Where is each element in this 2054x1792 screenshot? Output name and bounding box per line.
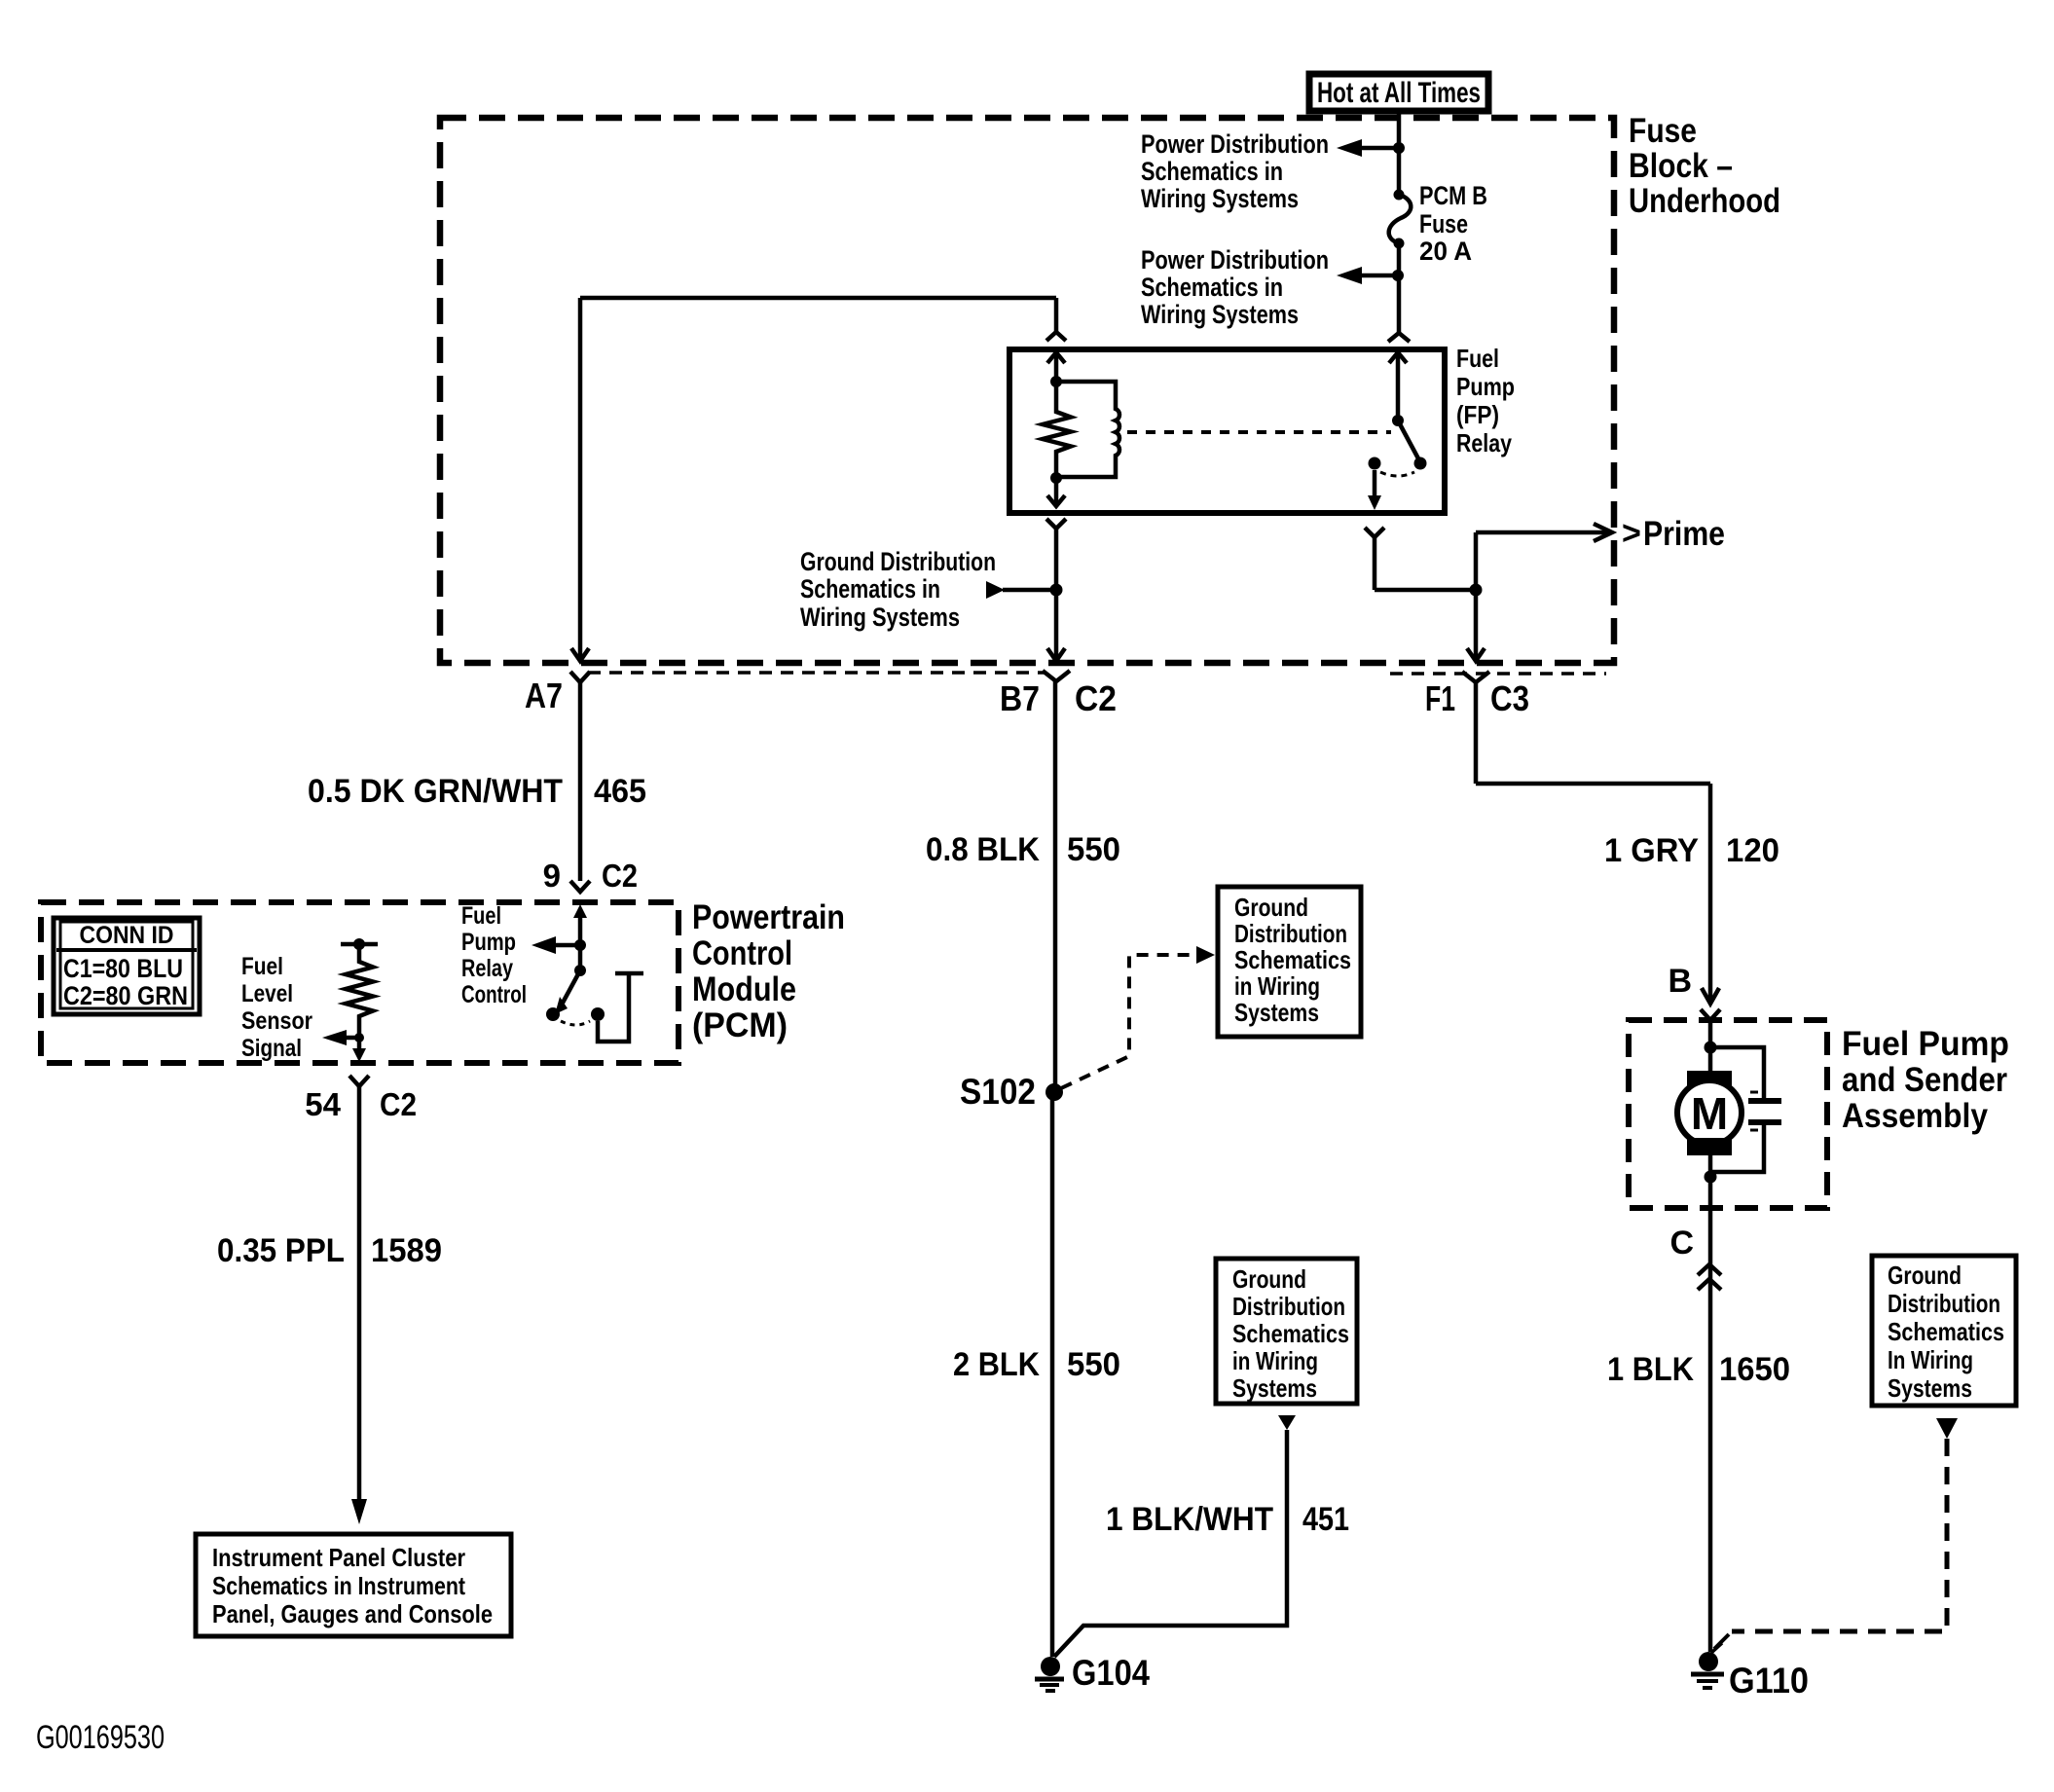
svg-text:(FP): (FP)	[1456, 400, 1499, 429]
svg-text:Wiring Systems: Wiring Systems	[800, 603, 960, 632]
relay box (Fuel Pump FP Relay)	[1009, 349, 1445, 513]
svg-text:F1: F1	[1425, 678, 1455, 718]
wire: 1 BLK/WHT 451	[1054, 1430, 1287, 1657]
wire to power distribution (lower)	[1361, 274, 1398, 278]
svg-text:Wiring Systems: Wiring Systems	[1141, 184, 1299, 213]
svg-text:Schematics in: Schematics in	[800, 574, 940, 603]
svg-text:Fuse: Fuse	[1629, 112, 1697, 150]
fuel pump and sender assembly dashed box	[1629, 1020, 1827, 1208]
svg-text:Distribution: Distribution	[1234, 919, 1347, 948]
instrument panel cluster reference box	[196, 1534, 511, 1636]
svg-text:1 BLK: 1 BLK	[1607, 1351, 1694, 1388]
powertrain control module dashed box	[41, 902, 679, 1063]
junction node at motor top	[1705, 1042, 1717, 1054]
inductor (relay coil)	[1056, 382, 1119, 477]
svg-text:C2: C2	[602, 858, 638, 894]
svg-text:B: B	[1668, 963, 1692, 1000]
svg-text:Prime: Prime	[1643, 515, 1725, 553]
wire: battery feed from Hot at All Times	[1397, 111, 1402, 194]
svg-text:1 BLK/WHT: 1 BLK/WHT	[1106, 1501, 1273, 1538]
svg-text:C2=80 GRN: C2=80 GRN	[63, 981, 188, 1010]
svg-text:Distribution: Distribution	[1888, 1289, 2000, 1318]
svg-text:Pump: Pump	[1456, 372, 1515, 401]
svg-text:Control: Control	[461, 981, 527, 1008]
connector B7 exit at fuse block edge	[1043, 648, 1070, 681]
svg-text:G110: G110	[1729, 1661, 1809, 1701]
dashed mechanical linkage	[1127, 430, 1391, 434]
svg-text:Signal: Signal	[241, 1035, 302, 1062]
capacitor (noise suppressor)	[1710, 1047, 1781, 1172]
svg-text:G00169530: G00169530	[36, 1719, 165, 1756]
svg-text:Control: Control	[692, 934, 792, 972]
svg-text:in Wiring: in Wiring	[1232, 1346, 1318, 1375]
wire from ground distribution arrow	[1003, 588, 1056, 593]
connector C chevrons	[1698, 1264, 1721, 1290]
wire: coil low side to B7	[1054, 529, 1059, 660]
svg-text:Power Distribution: Power Distribution	[1141, 129, 1329, 159]
arrowhead into instrument panel cluster box	[351, 1499, 367, 1524]
svg-text:and Sender: and Sender	[1842, 1061, 2007, 1099]
svg-text:1650: 1650	[1719, 1351, 1790, 1388]
svg-text:Wiring Systems: Wiring Systems	[1141, 300, 1299, 329]
svg-text:Fuel Pump: Fuel Pump	[1842, 1025, 2009, 1063]
svg-text:Underhood: Underhood	[1629, 182, 1780, 220]
wire: fuse to relay switch pin	[1397, 243, 1402, 332]
svg-text:Assembly: Assembly	[1842, 1097, 1988, 1135]
svg-text:20 A: 20 A	[1419, 237, 1472, 266]
svg-text:G104: G104	[1072, 1653, 1150, 1693]
svg-text:C1=80 BLU: C1=80 BLU	[63, 954, 183, 983]
svg-text:(PCM): (PCM)	[692, 1006, 788, 1044]
svg-text:550: 550	[1067, 831, 1120, 868]
svg-text:1 GRY: 1 GRY	[1604, 832, 1699, 869]
junction node at coil bottom	[1050, 472, 1062, 484]
svg-text:2 BLK: 2 BLK	[953, 1346, 1040, 1383]
fuel level sensor (variable resistor)	[341, 938, 378, 1038]
wire: 0.35 PPL 1589 to instrument panel	[357, 1086, 362, 1501]
svg-text:CONN ID: CONN ID	[80, 922, 174, 949]
svg-text:Relay: Relay	[1456, 428, 1512, 457]
wire: motor to connector C	[1708, 1177, 1713, 1652]
dashed reference line to G110	[1732, 1439, 1947, 1631]
svg-text:Schematics: Schematics	[1234, 945, 1351, 974]
svg-text:PCM B: PCM B	[1419, 181, 1487, 210]
connector B of fuel pump	[1701, 988, 1720, 1020]
svg-text:In Wiring: In Wiring	[1888, 1345, 1973, 1374]
svg-text:C3: C3	[1490, 678, 1529, 718]
svg-text:Relay: Relay	[461, 955, 513, 982]
motor M (fuel pump motor)	[1677, 1071, 1742, 1177]
splice S102	[1045, 1083, 1063, 1101]
svg-text:Level: Level	[241, 980, 293, 1007]
svg-text:Fuse: Fuse	[1419, 209, 1468, 238]
wire: 1 GRY 120 to fuel pump	[1476, 682, 1710, 1003]
wire: relay coil feed to PCM (465 net)	[580, 296, 1056, 301]
fuse PCM B 20 A	[1389, 190, 1412, 249]
connector pin 54 C2 below PCM	[349, 1076, 369, 1086]
svg-text:0.8 BLK: 0.8 BLK	[926, 831, 1040, 868]
svg-text:A7: A7	[525, 676, 563, 715]
svg-text:>: >	[1622, 515, 1641, 552]
svg-text:Block –: Block –	[1629, 147, 1733, 185]
svg-text:Systems: Systems	[1234, 998, 1319, 1027]
ground distribution box (middle lower)	[1216, 1259, 1357, 1404]
junction node on battery feed	[1393, 142, 1405, 154]
PCM pin 9 internal arrow (fuel pump relay control driver)	[532, 904, 587, 954]
svg-text:465: 465	[594, 773, 646, 810]
relay coil pin entry (top left)	[1046, 332, 1066, 387]
arrowhead pointing right into middle ground distribution box	[1196, 946, 1215, 964]
ground distribution box (middle upper)	[1218, 887, 1361, 1037]
connector chevron at relay switch pin	[1388, 333, 1410, 342]
PCM internal switch (relay control)	[546, 945, 643, 1042]
svg-text:Pump: Pump	[461, 929, 516, 956]
wire: 0.5 DK GRN/WHT 465	[578, 682, 583, 881]
svg-text:Hot at All Times: Hot at All Times	[1317, 77, 1481, 109]
svg-text:Fuel: Fuel	[1456, 344, 1499, 373]
arrowhead below right ground distribution box	[1936, 1418, 1958, 1439]
fuse block underhood dashed box	[440, 118, 1614, 663]
svg-text:0.35 PPL: 0.35 PPL	[217, 1232, 345, 1269]
svg-text:Schematics: Schematics	[1232, 1319, 1349, 1348]
svg-text:C2: C2	[1075, 678, 1117, 718]
svg-text:C2: C2	[380, 1086, 417, 1122]
svg-text:Ground Distribution: Ground Distribution	[800, 547, 996, 576]
svg-text:Panel, Gauges and Console: Panel, Gauges and Console	[212, 1599, 493, 1628]
dashed reference line from S102	[1061, 955, 1197, 1088]
svg-text:54: 54	[305, 1086, 341, 1122]
svg-text:Schematics in: Schematics in	[1141, 157, 1283, 186]
svg-text:Power Distribution: Power Distribution	[1141, 245, 1329, 274]
connector pin 9 C2 into PCM	[570, 881, 590, 892]
svg-text:Ground: Ground	[1234, 893, 1308, 922]
svg-text:Module: Module	[692, 970, 796, 1008]
svg-text:Sensor: Sensor	[241, 1007, 312, 1035]
CONN ID legend box	[54, 918, 200, 1014]
ground G104	[1035, 1657, 1064, 1691]
svg-text:550: 550	[1067, 1346, 1120, 1383]
junction node for ground distribution feed	[1050, 584, 1063, 597]
svg-text:Schematics in Instrument: Schematics in Instrument	[212, 1571, 465, 1600]
svg-text:Systems: Systems	[1232, 1373, 1317, 1403]
svg-text:Ground: Ground	[1232, 1264, 1306, 1294]
wire: 0.8 BLK 550	[1053, 681, 1058, 1092]
svg-text:Fuel: Fuel	[241, 953, 283, 980]
relay pole exit wire	[1365, 470, 1483, 597]
svg-text:M: M	[1691, 1088, 1728, 1139]
connector A7 exit at fuse block edge	[570, 648, 590, 682]
junction node at motor bottom	[1705, 1171, 1717, 1184]
svg-text:B7: B7	[1000, 678, 1040, 718]
wire: 2 BLK 550 to G104	[1050, 1092, 1055, 1657]
svg-text:120: 120	[1726, 832, 1779, 869]
wire: F1 output down through fuse block edge	[1462, 590, 1489, 682]
relay coil bottom exit pin	[1046, 478, 1066, 529]
svg-text:Systems: Systems	[1888, 1373, 1972, 1403]
svg-text:1589: 1589	[371, 1232, 442, 1269]
svg-text:Powertrain: Powertrain	[692, 898, 845, 936]
ground distribution box (right)	[1872, 1256, 2016, 1406]
wire: prime branch	[1476, 524, 1612, 590]
relay coil feed pin entry at relay top left	[1054, 298, 1059, 332]
wire to power distribution (upper)	[1361, 146, 1399, 151]
arrowhead pointing left (lower power distribution)	[1337, 267, 1362, 284]
svg-text:in Wiring: in Wiring	[1234, 971, 1320, 1001]
label: Hot at All Times	[1309, 74, 1488, 111]
svg-text:Instrument Panel Cluster: Instrument Panel Cluster	[212, 1543, 465, 1572]
arrowhead below middle ground distribution box	[1278, 1415, 1296, 1430]
svg-text:C: C	[1669, 1225, 1694, 1262]
svg-text:Fuel: Fuel	[461, 902, 501, 930]
resistor (relay coil shunt)	[1043, 382, 1071, 479]
svg-text:451: 451	[1302, 1501, 1349, 1538]
relay switch	[1369, 352, 1427, 476]
arrowhead pointing left (upper power distribution)	[1337, 139, 1362, 157]
svg-text:Distribution: Distribution	[1232, 1292, 1345, 1321]
junction node on fused feed	[1392, 270, 1404, 281]
fuel level sensor signal tap	[322, 1030, 366, 1062]
svg-text:9: 9	[543, 858, 561, 894]
svg-text:0.5 DK GRN/WHT: 0.5 DK GRN/WHT	[308, 773, 563, 810]
svg-text:Schematics: Schematics	[1888, 1317, 2004, 1346]
arrowhead pointing right (ground distribution feed)	[986, 581, 1005, 599]
svg-text:Schematics in: Schematics in	[1141, 273, 1283, 302]
thin dashed connector line at F1	[1390, 672, 1606, 676]
thin dashed connector line A7 to B7	[588, 671, 1045, 675]
svg-text:Ground: Ground	[1888, 1261, 1962, 1290]
wire into motor	[1708, 1020, 1713, 1073]
ground G110	[1691, 1643, 1724, 1688]
svg-text:S102: S102	[960, 1072, 1036, 1112]
